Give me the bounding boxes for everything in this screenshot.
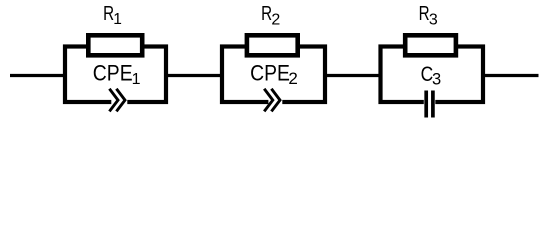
wire between block1 and block2: [166, 74, 222, 77]
CPE2 symbol (double chevron): [264, 89, 280, 112]
wire gap for capacitor C3: [424, 98, 436, 107]
CPE1 symbol (double chevron): [109, 89, 125, 112]
svg-text:1: 1: [113, 11, 122, 28]
svg-text:CPE: CPE: [250, 61, 290, 85]
node C: parallel loop 3: [381, 47, 484, 107]
node B: parallel loop 2: [222, 47, 325, 107]
svg-text:3: 3: [432, 71, 441, 89]
wire gap for CPE2 symbol: [268, 98, 282, 107]
svg-text:2: 2: [271, 11, 280, 28]
label C3: [421, 64, 442, 89]
capacitor C3 plates: [426, 91, 433, 118]
wire gap for CPE1 symbol: [111, 98, 127, 107]
label CPE2: [250, 61, 298, 88]
wire left lead: [10, 74, 67, 77]
wire right lead: [483, 74, 539, 77]
node A: parallel loop 1: [65, 47, 166, 107]
resistor R2: [247, 35, 298, 55]
label R1: [103, 2, 122, 28]
resistor R3: [405, 35, 456, 55]
svg-text:2: 2: [288, 69, 297, 88]
label CPE1: [93, 61, 141, 88]
svg-text:CPE: CPE: [93, 61, 133, 85]
svg-text:3: 3: [429, 11, 438, 28]
label R3: [419, 2, 438, 28]
label R2: [261, 2, 280, 28]
svg-text:1: 1: [132, 71, 141, 88]
resistor R1: [88, 35, 142, 55]
wire between block2 and block3: [325, 74, 381, 77]
